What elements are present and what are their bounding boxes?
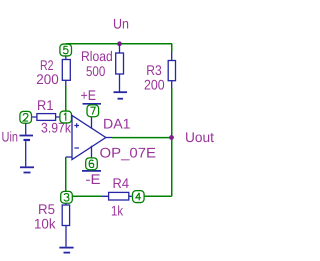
node 4 bubble (133, 191, 145, 203)
svg-text:200: 200 (144, 77, 165, 93)
svg-text:Uin: Uin (2, 129, 19, 145)
+E label (81, 87, 97, 103)
ground (Rload) (114, 92, 128, 99)
svg-text:200: 200 (36, 71, 59, 87)
R5 value labels (34, 201, 56, 231)
ground (R5) (59, 248, 73, 253)
Uin label (2, 129, 19, 145)
wire inverting feedback (66, 157, 73, 192)
R1 value labels (37, 97, 72, 136)
wire top rail (66, 43, 173, 45)
R2 value labels (36, 57, 59, 87)
op-amp plus input mark (74, 123, 79, 128)
resistor Rload (116, 44, 124, 92)
svg-text:500: 500 (86, 63, 105, 79)
node Un label (113, 16, 129, 32)
junction dot top (117, 41, 122, 46)
node 3 bubble (61, 191, 73, 203)
-E label (86, 171, 101, 187)
svg-text:10k: 10k (34, 215, 56, 231)
source Uin battery (20, 123, 34, 166)
R3 value labels (144, 62, 165, 93)
op-amp DA1 triangle (72, 115, 106, 159)
wire R2 to node 1 (65, 86, 67, 111)
power -E pin 6 lead and bar (82, 146, 101, 171)
node 1 bubble (60, 111, 72, 123)
wire R3 column down (144, 44, 172, 197)
resistor R2 (62, 55, 70, 86)
resistor R4 (102, 192, 132, 200)
svg-text:+E: +E (81, 87, 97, 103)
svg-text:Rload: Rload (81, 48, 113, 64)
svg-text:R1: R1 (37, 97, 54, 113)
R4 value labels (111, 175, 129, 218)
node 6 bubble (86, 158, 98, 170)
wire node3 to R4 (73, 195, 102, 197)
svg-text:1k: 1k (111, 202, 124, 218)
resistor R5 (62, 203, 69, 247)
wire output (106, 137, 172, 139)
node 2 bubble (20, 111, 32, 123)
junction dot output (169, 135, 174, 140)
svg-text:Un: Un (113, 16, 129, 32)
svg-text:R4: R4 (113, 175, 130, 191)
node 5 bubble (60, 44, 72, 56)
svg-text:-E: -E (86, 171, 101, 187)
resistor R3 (168, 52, 175, 89)
Rload value labels (81, 48, 113, 79)
node 7 bubble (87, 105, 99, 117)
op-amp labels DA1 OP_07E (100, 115, 157, 160)
node Uout label (185, 129, 214, 145)
svg-text:Uout: Uout (185, 129, 214, 145)
svg-text:OP_07E: OP_07E (100, 144, 157, 160)
resistor R1 (31, 114, 60, 121)
ground (Uin) (20, 167, 34, 172)
op-amp minus input mark (74, 147, 79, 149)
svg-text:DA1: DA1 (103, 115, 131, 131)
power +E pin 7 lead and bar (83, 104, 102, 129)
